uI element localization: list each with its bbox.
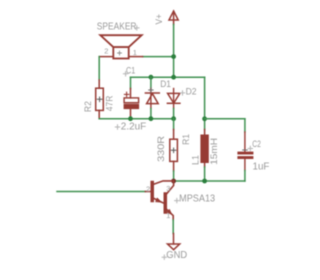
collector T1: [154, 181, 174, 184]
C1 top pin: [130, 89, 132, 98]
MPSA13 label cross: [175, 198, 179, 202]
C2 label cross: [248, 146, 252, 150]
L1 bottom pin: [204, 163, 206, 168]
svg-text:GND: GND: [166, 249, 187, 261]
junction C1 bottom: [128, 116, 133, 121]
wire D1 top stub: [150, 77, 152, 88]
wire top-row corner down to L1: [204, 77, 206, 129]
svg-text:1: 1: [166, 211, 170, 220]
wire D2 junction down to R1: [173, 119, 175, 130]
transistor Q1 MPSA13 darlington: [145, 181, 173, 220]
speaker label cross: [135, 26, 139, 30]
wire speaker pin2 down to R2: [98, 57, 100, 80]
collector T2: [167, 181, 174, 194]
wire C2 branch horizontal: [205, 118, 245, 120]
C2 origin cross: [243, 149, 248, 151]
emitter T1: [154, 198, 164, 203]
wire base row: [57, 191, 145, 193]
D1 origin cross: [149, 88, 153, 92]
junction at V+ / speaker row: [171, 54, 176, 59]
L1 top pin: [204, 130, 206, 136]
base pin: [145, 191, 150, 193]
emitter T2 arrow: [167, 209, 173, 214]
power V+ supply symbol: [169, 11, 178, 25]
resistor R2: [96, 88, 104, 110]
wire V+ vertical down to top row: [173, 25, 175, 78]
wire C1 top: [130, 77, 132, 88]
inductor L1: [201, 135, 208, 163]
R2 bottom pin: [98, 110, 100, 118]
wire D2 bottom stub: [173, 109, 175, 119]
junction L1 bottom: [202, 179, 207, 184]
svg-text:C1: C1: [126, 66, 135, 77]
D2 label cross: [180, 91, 184, 95]
base bar T2: [164, 193, 167, 214]
capacitor C1 (polarized): [124, 98, 139, 109]
wire emitter to GND: [172, 220, 174, 234]
wire R1 to collector node: [173, 171, 175, 181]
C1 bottom pin: [130, 109, 132, 119]
svg-text:1: 1: [133, 48, 137, 57]
R2 origin cross: [97, 97, 102, 102]
junction V+/D2 top: [171, 75, 176, 80]
ground symbol: [168, 244, 180, 250]
svg-text:C2: C2: [252, 139, 261, 150]
emitter T2: [167, 210, 173, 221]
svg-text:15mH: 15mH: [209, 138, 220, 165]
GND label cross: [162, 255, 166, 259]
wire bottom row R2..D2: [99, 118, 173, 120]
svg-text:3: 3: [166, 184, 170, 193]
junction L1 / C2 branch: [202, 116, 207, 121]
wire collector row: [174, 180, 245, 182]
R1 origin cross: [171, 148, 176, 153]
C1 label cross: [123, 72, 127, 76]
svg-text:330R: 330R: [156, 136, 167, 162]
speaker LS1 symbol: [99, 35, 142, 58]
resistor R1: [170, 139, 178, 161]
svg-text:2: 2: [146, 185, 150, 194]
svg-text:2.2uF: 2.2uF: [121, 121, 146, 132]
svg-text:L1: L1: [191, 155, 202, 165]
R1 bottom pin: [173, 161, 175, 171]
svg-text:D2: D2: [186, 87, 197, 98]
emitter T1 arrow: [155, 198, 161, 203]
speaker origin cross: [118, 51, 122, 55]
junction D1 top: [149, 75, 154, 80]
C2 top pin: [244, 132, 246, 152]
C1 plus polarity mark: [124, 92, 128, 96]
C2 bottom pin: [244, 159, 246, 171]
D1 bottom stub wire: [150, 109, 152, 119]
wire speaker pin1 to V+ line: [143, 56, 174, 58]
svg-text:V+: V+: [154, 14, 165, 25]
svg-text:D1: D1: [160, 79, 171, 90]
svg-text:1uF: 1uF: [253, 161, 270, 172]
svg-text:MPSA13: MPSA13: [179, 193, 215, 204]
R1 top pin: [173, 130, 175, 140]
base bar T1: [151, 181, 154, 202]
wire C2 bottom down: [244, 171, 246, 182]
svg-text:SPEAKER: SPEAKER: [97, 21, 137, 32]
capacitor C2: [237, 152, 253, 159]
wire top row C1..L1 corner: [131, 76, 205, 78]
svg-text:2: 2: [104, 47, 108, 56]
wire L1 to collector row: [204, 167, 206, 181]
R2 top pin: [98, 80, 100, 88]
junction D2 bottom / R1: [171, 116, 176, 121]
diode D1: [145, 89, 159, 109]
2.2uF label cross: [115, 125, 119, 129]
diode D2: [167, 89, 180, 109]
junction D1 bottom: [149, 116, 154, 121]
svg-text:R1: R1: [181, 134, 192, 145]
svg-text:47R: 47R: [104, 95, 115, 111]
svg-text:R2: R2: [83, 101, 94, 112]
junction collector node: [171, 179, 176, 184]
wire C2 branch down: [244, 119, 246, 132]
GND stem: [173, 234, 175, 245]
